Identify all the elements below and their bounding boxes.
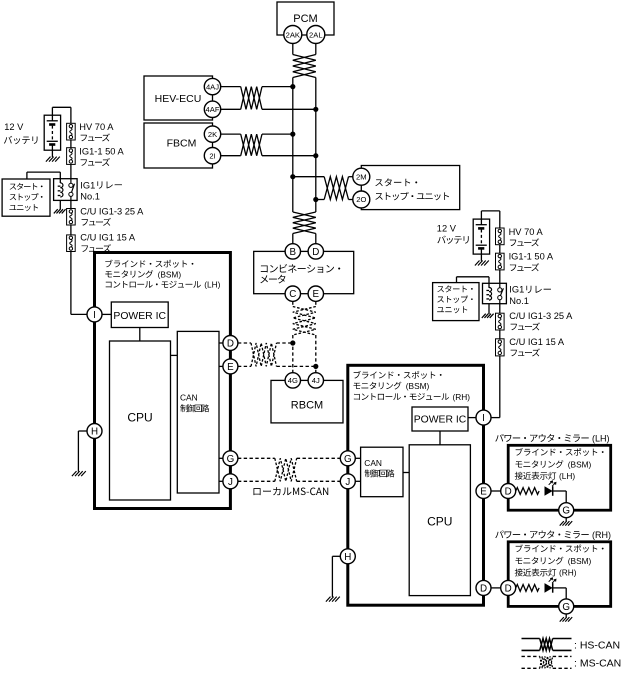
LED indicator RH (545, 578, 556, 593)
wire MS-CAN (277, 343, 316, 366)
terminal 4AJ (204, 78, 220, 94)
terminal I LH (87, 307, 102, 322)
terminal H RH (340, 549, 355, 564)
wire (491, 417, 500, 419)
wire (553, 491, 566, 503)
fuse C/U IG1-3 25A left (67, 209, 76, 226)
wire MS-CAN (293, 335, 316, 373)
ground (482, 314, 494, 318)
svg-text:HV 70 A: HV 70 A (79, 122, 114, 132)
CAN circuit RH (361, 447, 403, 497)
svg-text:(LH): (LH) (592, 434, 610, 444)
svg-text:H: H (91, 427, 98, 438)
svg-text:12 V: 12 V (4, 122, 24, 132)
svg-text:FBCM: FBCM (167, 138, 197, 150)
svg-text:CAN: CAN (364, 458, 382, 468)
wire (439, 431, 441, 445)
terminal 2I (204, 148, 220, 164)
module BSM control module RH (348, 365, 484, 605)
svg-text:IG1: IG1 (80, 180, 95, 190)
svg-text:G: G (227, 454, 235, 465)
svg-text:E: E (480, 487, 487, 498)
wire (70, 225, 72, 235)
svg-text:4J: 4J (312, 376, 320, 385)
junction (313, 364, 318, 369)
terminal G mirror LH (559, 503, 574, 518)
MS-CAN twisted pair (293, 307, 316, 336)
terminal 2O (353, 191, 370, 208)
wire (355, 458, 361, 481)
resistor (516, 585, 539, 592)
terminal 2K (204, 126, 220, 142)
label (509, 227, 544, 247)
fuse C/U IG1-3 25A right (496, 313, 505, 330)
svg-text:C/U IG1 15 A: C/U IG1 15 A (80, 233, 136, 243)
module mirror LH (508, 445, 611, 510)
CPU RH (409, 445, 470, 596)
svg-text:POWER IC: POWER IC (414, 414, 467, 425)
svg-text:(BSM): (BSM) (568, 556, 592, 566)
svg-text:4AJ: 4AJ (206, 82, 219, 91)
wire (488, 304, 490, 314)
terminal H LH (87, 424, 102, 439)
HS-CAN twisted pair (324, 177, 348, 200)
svg-text:IG1-1 50 A: IG1-1 50 A (509, 252, 554, 262)
wire (262, 134, 316, 156)
svg-text:: HS-CAN: : HS-CAN (574, 640, 620, 652)
label (509, 311, 573, 331)
wire HS-CAN bus right (315, 78, 317, 213)
power IC LH (111, 302, 168, 328)
wire MS-CAN (297, 458, 341, 481)
terminal 4AF (204, 101, 220, 117)
svg-text:: MS-CAN: : MS-CAN (574, 657, 621, 669)
ground (326, 597, 340, 602)
wire (171, 354, 178, 356)
fuse IG1-1 50A right (496, 253, 505, 270)
svg-text:E: E (227, 362, 234, 373)
HS-CAN twisted pair (293, 55, 316, 78)
svg-text:(RH): (RH) (559, 568, 577, 578)
terminal G RH (340, 451, 355, 466)
junction (290, 84, 295, 89)
CPU LH (110, 341, 171, 500)
terminal D mirror LH (501, 484, 516, 499)
svg-text:(BSM): (BSM) (158, 269, 182, 279)
svg-text:2AL: 2AL (309, 30, 323, 39)
MS-CAN twisted pair (275, 458, 297, 481)
svg-text:IG1-1 50 A: IG1-1 50 A (79, 147, 124, 157)
wire from fuse to I (71, 252, 87, 315)
wire (70, 140, 72, 148)
label power outer mirror LH (495, 434, 609, 444)
wire (52, 107, 71, 123)
label 12V right (437, 224, 469, 244)
wire (102, 313, 111, 315)
svg-text:I: I (482, 413, 485, 424)
svg-text:No.1: No.1 (80, 192, 100, 202)
junction (290, 132, 295, 137)
label (79, 147, 124, 167)
svg-text:HV 70 A: HV 70 A (509, 227, 544, 237)
fuse C/U IG1 15A left (67, 235, 76, 252)
svg-text:D: D (227, 339, 234, 350)
relay IG1 No.1 right (483, 283, 507, 303)
svg-text:G: G (562, 506, 570, 517)
junction (290, 340, 295, 345)
HS-CAN twisted pair (241, 134, 262, 156)
resistor (516, 488, 539, 495)
fuse HV 70A right (496, 228, 505, 245)
wire (457, 277, 490, 288)
wire MS-CAN (293, 301, 316, 306)
terminal G LH (223, 451, 238, 466)
terminal 2M (353, 168, 370, 185)
wire (221, 134, 241, 156)
label (80, 206, 144, 226)
wire (70, 200, 72, 208)
terminal D (308, 244, 323, 259)
HS-CAN twisted pair (293, 212, 316, 234)
module start-stop unit right (433, 283, 479, 321)
terminal E RH (476, 484, 491, 499)
svg-text:(LH): (LH) (559, 471, 575, 481)
svg-text:No.1: No.1 (509, 296, 529, 306)
terminal D mirror RH (501, 580, 516, 595)
fuse C/U IG1 15A right (496, 339, 505, 356)
MS-CAN twisted pair (251, 343, 277, 366)
power IC RH (412, 407, 468, 431)
label (80, 233, 136, 253)
label (509, 285, 551, 306)
module BSM control module LH (95, 253, 231, 509)
wire (293, 44, 316, 55)
junction (290, 174, 295, 179)
wire (332, 556, 340, 597)
junction (313, 197, 318, 202)
module RBCM (271, 380, 343, 423)
module HEV-ECU (144, 76, 213, 120)
svg-text:IG1: IG1 (509, 285, 524, 295)
svg-text:PCM: PCM (293, 13, 317, 25)
terminal E LH (223, 359, 238, 374)
wire (27, 172, 60, 183)
svg-text:4G: 4G (288, 376, 298, 385)
label (509, 337, 565, 357)
terminal 4J (308, 373, 323, 388)
svg-text:2AK: 2AK (286, 30, 300, 39)
terminal G mirror RH (559, 599, 574, 614)
module combination meter (254, 251, 354, 293)
svg-text:J: J (228, 477, 233, 488)
svg-text:E: E (313, 289, 320, 300)
wire (78, 431, 87, 472)
wire (499, 330, 501, 339)
label power outer mirror RH (495, 530, 611, 540)
terminal J LH (223, 474, 238, 489)
module start-stop unit left (2, 179, 50, 216)
label local MS-CAN (253, 487, 328, 495)
svg-text:2O: 2O (356, 195, 366, 204)
wire (499, 270, 501, 283)
svg-text:D: D (505, 583, 512, 594)
wire (403, 472, 409, 474)
terminal C (285, 286, 300, 301)
module mirror RH (508, 542, 611, 607)
svg-text:CPU: CPU (127, 410, 152, 424)
svg-text:C/U IG1-3 25 A: C/U IG1-3 25 A (509, 311, 573, 321)
svg-text:4AF: 4AF (206, 105, 220, 114)
svg-text:(RH): (RH) (592, 530, 611, 540)
wire (349, 177, 354, 200)
terminal 2AK (284, 26, 302, 44)
fuse HV 70A left (67, 123, 76, 140)
svg-text:2K: 2K (208, 130, 217, 139)
wire (491, 587, 501, 589)
svg-text:HEV-ECU: HEV-ECU (155, 93, 202, 105)
ground (72, 471, 86, 476)
junction (313, 107, 318, 112)
svg-text:(RH): (RH) (453, 392, 471, 402)
terminal D LH (223, 336, 238, 351)
wire (468, 417, 476, 419)
svg-text:2I: 2I (209, 151, 215, 160)
svg-text:C/U IG1 15 A: C/U IG1 15 A (509, 337, 565, 347)
svg-text:G: G (562, 602, 570, 613)
terminal J RH (340, 474, 355, 489)
svg-text:C: C (289, 289, 296, 300)
wire (70, 164, 72, 178)
wire (139, 328, 141, 342)
label (80, 180, 122, 201)
relay IG1 No.1 left (54, 179, 78, 201)
wire (59, 200, 61, 209)
svg-text:(BSM): (BSM) (406, 381, 430, 391)
LED indicator LH (545, 481, 556, 496)
wire MS-CAN (238, 343, 251, 366)
wire (491, 490, 501, 492)
svg-text:CAN: CAN (180, 392, 198, 402)
terminal 2AL (307, 26, 325, 44)
battery 12V left (44, 115, 60, 161)
wire (221, 87, 241, 110)
svg-text:CPU: CPU (427, 515, 452, 529)
svg-text:RBCM: RBCM (291, 400, 323, 412)
svg-text:(BSM): (BSM) (568, 459, 592, 469)
svg-text:2M: 2M (356, 172, 367, 181)
module start-stop unit (361, 166, 459, 210)
label (79, 122, 114, 141)
svg-text:D: D (480, 583, 487, 594)
svg-text:D: D (312, 247, 319, 258)
svg-text:12 V: 12 V (437, 224, 457, 234)
svg-text:B: B (290, 247, 297, 258)
terminal B (285, 244, 300, 259)
label 12V left (4, 122, 38, 144)
terminal 4G (285, 373, 300, 388)
fuse IG1-1 50A left (67, 148, 76, 165)
wire (262, 87, 316, 110)
terminal I RH (476, 410, 491, 425)
wire MS-CAN (238, 458, 275, 481)
ground (54, 209, 66, 213)
terminal E (308, 286, 323, 301)
svg-text:D: D (505, 487, 512, 498)
wire (499, 245, 501, 254)
wire (499, 304, 501, 314)
ground (560, 518, 573, 526)
label (509, 252, 554, 272)
wire (553, 588, 566, 599)
ground (560, 614, 573, 622)
svg-text:I: I (93, 310, 96, 321)
module FBCM (144, 123, 213, 168)
CAN circuit LH (177, 331, 219, 493)
battery 12V right (473, 219, 489, 265)
svg-text:J: J (345, 477, 350, 488)
HS-CAN twisted pair (241, 87, 262, 110)
wire (219, 343, 223, 481)
svg-text:C/U IG1-3 25 A: C/U IG1-3 25 A (80, 206, 144, 216)
svg-text:G: G (344, 454, 352, 465)
module PCM (277, 2, 334, 35)
svg-text:H: H (344, 552, 351, 563)
junction (313, 153, 318, 158)
wire (293, 177, 324, 200)
svg-text:POWER IC: POWER IC (113, 311, 166, 322)
wire HS-CAN bus left (292, 78, 294, 213)
wire (293, 234, 316, 244)
svg-text:(LH): (LH) (204, 280, 220, 290)
wire (481, 211, 499, 228)
legend MS-CAN (522, 656, 622, 669)
legend HS-CAN (522, 639, 621, 652)
terminal D RH (476, 580, 491, 595)
wire (499, 356, 501, 418)
